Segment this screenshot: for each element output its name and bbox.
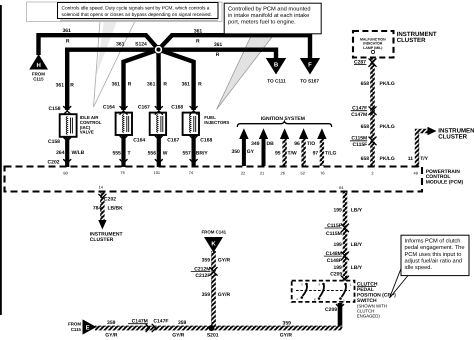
svg-text:GY/R: GY/R [105, 332, 118, 338]
svg-text:C164: C164 [133, 138, 145, 144]
svg-text:22: 22 [241, 170, 245, 175]
svg-text:264: 264 [56, 150, 65, 156]
svg-text:361: 361 [147, 81, 156, 87]
svg-text:PK/LG: PK/LG [380, 156, 395, 162]
svg-text:E: E [86, 324, 90, 331]
svg-text:C202: C202 [104, 197, 116, 203]
svg-text:adjust fuel/air ratio and: adjust fuel/air ratio and [405, 257, 463, 264]
svg-text:R: R [66, 38, 70, 44]
svg-text:101: 101 [154, 170, 161, 175]
svg-text:CLUSTER: CLUSTER [438, 134, 467, 141]
svg-text:80: 80 [63, 171, 68, 176]
svg-text:361: 361 [56, 82, 65, 88]
svg-text:556: 556 [148, 150, 157, 156]
svg-text:199: 199 [333, 208, 342, 214]
svg-text:GY/R: GY/R [172, 332, 185, 338]
svg-text:S201: S201 [207, 333, 219, 339]
svg-text:11: 11 [408, 156, 414, 162]
svg-text:361: 361 [194, 29, 203, 35]
svg-text:14: 14 [99, 184, 104, 189]
svg-text:FROM: FROM [68, 321, 81, 326]
svg-text:S124: S124 [135, 42, 147, 48]
svg-text:64: 64 [339, 185, 344, 190]
svg-text:Informs PCM of clutch: Informs PCM of clutch [405, 238, 461, 245]
svg-text:75: 75 [120, 170, 124, 175]
svg-text:96: 96 [294, 141, 300, 147]
svg-text:LAMP (MIL): LAMP (MIL) [363, 46, 382, 50]
svg-text:B: B [274, 62, 279, 69]
svg-text:C158: C158 [49, 106, 61, 112]
svg-text:C115: C115 [33, 77, 44, 82]
svg-text:R: R [70, 82, 74, 88]
svg-text:784: 784 [93, 206, 102, 212]
svg-text:R: R [196, 39, 200, 45]
svg-text:FROM C141: FROM C141 [201, 229, 226, 234]
svg-text:BR/Y: BR/Y [196, 150, 209, 156]
svg-text:H: H [37, 62, 41, 69]
svg-text:361: 361 [182, 81, 191, 87]
svg-text:DB: DB [267, 141, 275, 147]
svg-text:port, meters fuel to engine.: port, meters fuel to engine. [228, 19, 296, 26]
svg-text:359: 359 [178, 320, 187, 326]
svg-text:R: R [163, 81, 167, 87]
svg-text:359: 359 [202, 292, 211, 298]
svg-text:IGNITION SYSTEM: IGNITION SYSTEM [261, 116, 305, 122]
svg-text:95: 95 [275, 151, 281, 157]
svg-text:359: 359 [283, 321, 292, 327]
svg-text:T/O: T/O [307, 141, 315, 147]
svg-text:8: 8 [314, 298, 316, 302]
svg-text:49: 49 [414, 170, 418, 175]
svg-text:LB/BK: LB/BK [108, 206, 124, 212]
svg-text:solenoid that opens or closes: solenoid that opens or closes air bypass… [62, 12, 212, 18]
svg-text:76: 76 [320, 170, 324, 175]
svg-text:W/LB: W/LB [72, 150, 85, 156]
svg-text:PK/LG: PK/LG [380, 81, 395, 87]
svg-text:GY/R: GY/R [218, 292, 231, 298]
svg-text:GY: GY [247, 149, 255, 155]
svg-text:C209: C209 [330, 272, 342, 278]
svg-text:PCM uses this input to: PCM uses this input to [405, 251, 462, 258]
svg-text:C202: C202 [48, 160, 60, 166]
svg-text:in intake manifold at each int: in intake manifold at each intake [228, 12, 309, 19]
svg-text:C167: C167 [138, 104, 150, 110]
svg-text:361: 361 [116, 42, 125, 48]
svg-text:658: 658 [361, 81, 370, 87]
svg-text:C168: C168 [171, 104, 183, 110]
svg-text:C167: C167 [167, 138, 179, 144]
svg-text:C212F: C212F [195, 273, 210, 279]
svg-text:T/LG: T/LG [325, 151, 336, 157]
svg-text:52: 52 [301, 170, 305, 175]
svg-text:C168: C168 [200, 138, 212, 144]
svg-text:199: 199 [333, 242, 342, 248]
svg-text:1: 1 [350, 282, 352, 286]
svg-text:R: R [216, 52, 220, 58]
svg-text:C158: C158 [48, 139, 60, 145]
svg-text:Controls idle speed. Duty cyc: Controls idle speed. Duty cycle signals … [62, 5, 210, 11]
svg-text:LB/Y: LB/Y [351, 208, 363, 214]
svg-text:K: K [211, 241, 216, 248]
svg-text:MODULE (PCM): MODULE (PCM) [426, 179, 464, 185]
svg-text:97: 97 [313, 151, 319, 157]
svg-text:361: 361 [112, 81, 121, 87]
svg-text:W: W [163, 150, 168, 156]
svg-text:C115: C115 [71, 327, 82, 332]
svg-text:LB/Y: LB/Y [351, 265, 363, 271]
svg-text:3: 3 [301, 282, 303, 286]
svg-text:2: 2 [343, 298, 345, 302]
svg-text:R: R [128, 81, 132, 87]
svg-text:350: 350 [231, 149, 240, 155]
svg-text:R: R [198, 81, 202, 87]
svg-text:349: 349 [251, 141, 260, 147]
svg-text:26: 26 [281, 170, 285, 175]
svg-text:TO C111: TO C111 [267, 79, 286, 84]
svg-text:PK/LG: PK/LG [380, 124, 395, 130]
svg-text:CLUSTER: CLUSTER [397, 37, 426, 44]
svg-text:INJECTORS: INJECTORS [204, 120, 229, 125]
svg-text:555: 555 [112, 150, 121, 156]
svg-text:21: 21 [260, 170, 264, 175]
svg-text:C147F: C147F [153, 319, 168, 325]
svg-text:2: 2 [371, 170, 373, 175]
svg-text:658: 658 [361, 124, 370, 130]
svg-text:pedal engagement. The: pedal engagement. The [405, 244, 465, 251]
svg-text:C164: C164 [103, 104, 115, 110]
svg-text:TO S167: TO S167 [300, 79, 319, 84]
svg-text:T/W: T/W [288, 151, 297, 157]
svg-text:T: T [128, 150, 131, 156]
svg-text:74: 74 [189, 170, 194, 175]
svg-text:CLUSTER: CLUSTER [90, 237, 114, 243]
svg-text:VALVE: VALVE [80, 130, 94, 135]
svg-text:361: 361 [214, 42, 223, 48]
svg-text:C209: C209 [325, 307, 337, 313]
svg-text:idle speed.: idle speed. [405, 264, 433, 271]
svg-text:T/Y: T/Y [420, 156, 428, 162]
svg-text:Controlled by PCM and mounted: Controlled by PCM and mounted [228, 6, 311, 13]
svg-text:C115M: C115M [326, 231, 342, 237]
svg-text:C147M: C147M [351, 112, 367, 118]
svg-text:C115F: C115F [352, 142, 367, 148]
svg-text:GY/R: GY/R [280, 332, 293, 338]
svg-text:199: 199 [333, 265, 342, 271]
svg-text:4: 4 [296, 297, 298, 301]
svg-text:C148F: C148F [327, 258, 342, 264]
svg-text:LB/Y: LB/Y [351, 242, 363, 248]
svg-text:ENGAGED): ENGAGED) [357, 314, 380, 319]
svg-text:GY/R: GY/R [218, 258, 231, 264]
svg-text:F: F [308, 62, 312, 69]
svg-text:557: 557 [182, 150, 191, 156]
svg-text:361: 361 [63, 28, 72, 34]
svg-text:9: 9 [318, 282, 320, 286]
svg-text:359: 359 [107, 320, 116, 326]
svg-text:658: 658 [361, 156, 370, 162]
svg-text:359: 359 [202, 258, 211, 264]
